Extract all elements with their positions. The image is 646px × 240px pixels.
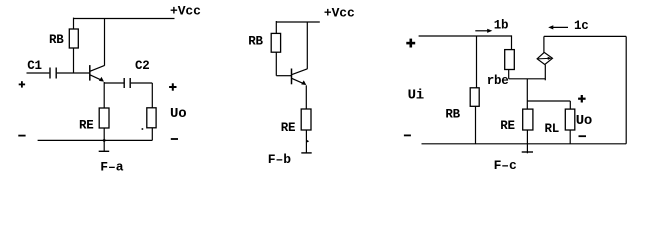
current arrow mark on emitter wire: [307, 140, 309, 143]
wire emitter node right to C2: [104, 82, 123, 84]
wire bottom rail F-c: [422, 143, 627, 145]
svg-text:RE: RE: [500, 119, 515, 133]
transistor Q2 base bar: [291, 69, 293, 85]
svg-text:Uo: Uo: [170, 106, 186, 122]
terminal tick F-c: [522, 151, 533, 153]
capacitor C1 plates: [49, 68, 51, 79]
current source top wire: [543, 36, 545, 52]
current source diamond: [537, 52, 552, 64]
wire RB top drop: [73, 18, 75, 29]
terminal tick F-b: [301, 152, 311, 154]
svg-text:1c: 1c: [574, 19, 589, 33]
wire RB bottom to base F-b: [275, 52, 277, 75]
resistor RB (F-b): [271, 33, 280, 52]
resistor RL (F-c): [565, 109, 575, 130]
svg-text:+Vcc: +Vcc: [324, 6, 355, 21]
wire base horizontal F-b: [276, 75, 291, 77]
wire C2 to output corner: [131, 82, 153, 84]
current source bottom wire: [544, 65, 546, 81]
resistor RB (F-c): [470, 88, 479, 107]
wire emitter node down: [526, 79, 528, 109]
wire C1 to base: [57, 72, 90, 74]
wire load bottom: [151, 128, 153, 141]
svg-text:F–a: F–a: [100, 160, 123, 175]
wire branch to RL: [527, 100, 570, 102]
svg-text:C2: C2: [135, 59, 150, 73]
resistor RB (F-a): [69, 29, 78, 48]
resistor RE (F-a): [99, 108, 109, 128]
current arrow ib: [475, 30, 489, 32]
minus output F-a: [171, 138, 178, 140]
wire RB3 top drop: [476, 36, 478, 88]
svg-text:rbe: rbe: [487, 74, 509, 88]
svg-text:RL: RL: [545, 122, 560, 136]
wire collector top rail F-c: [544, 35, 626, 37]
transistor Q2 emitter diagonal with arrow: [292, 78, 305, 84]
wire top rail (+Vcc) F-a: [74, 18, 175, 20]
current source inner arrow: [538, 57, 549, 60]
stray dot near load resistor: [142, 128, 144, 130]
terminal tick below rail F-a: [99, 150, 110, 152]
junction dot on bottom rail F-a: [103, 139, 106, 142]
wire right side drop: [625, 36, 627, 143]
wire input to C1: [27, 72, 50, 74]
wire rbe bottom to emitter node: [508, 70, 510, 79]
plus input F-c: [406, 39, 415, 48]
wire RB bottom to base node: [73, 48, 75, 73]
svg-text:C1: C1: [27, 59, 42, 73]
svg-text:1b: 1b: [494, 19, 509, 33]
wire emitter down to RE F-b: [305, 85, 307, 109]
wire corner to rbe: [511, 35, 513, 49]
wire input top rail F-c: [419, 35, 512, 37]
resistor RE (F-b): [301, 109, 311, 130]
plus input F-a: [19, 81, 25, 87]
wire bottom rail F-a: [38, 139, 153, 141]
resistor rbe: [505, 50, 515, 70]
wire emitter node down to RE: [103, 82, 105, 108]
current arrow ic: [551, 26, 568, 28]
plus output F-c: [578, 95, 586, 103]
wire top rail (+Vcc) F-b: [276, 21, 320, 23]
svg-text:RE: RE: [79, 119, 94, 133]
svg-text:Uo: Uo: [576, 113, 592, 129]
svg-text:RE: RE: [281, 121, 296, 135]
transistor Q1 collector diagonal: [90, 65, 104, 71]
resistor load (output) F-a: [147, 108, 156, 128]
svg-text:F–c: F–c: [494, 158, 517, 173]
svg-text:RB: RB: [248, 35, 263, 49]
svg-text:F–b: F–b: [268, 152, 291, 167]
plus output F-a: [169, 83, 176, 90]
wire Q2 collector to rail: [306, 22, 308, 69]
transistor Q1 base bar: [89, 65, 91, 81]
svg-text:Ui: Ui: [408, 88, 424, 104]
minus input F-c: [404, 135, 411, 137]
wire emitter node line: [509, 78, 546, 80]
transistor Q1 emitter diagonal with arrow: [90, 75, 102, 81]
svg-text:+Vcc: +Vcc: [170, 4, 201, 19]
wire Q1 collector to rail: [104, 19, 106, 66]
wire RE bottom to terminal F-b: [305, 130, 307, 153]
wire output drop: [151, 83, 153, 108]
minus output F-c: [579, 135, 587, 137]
capacitor C2 plates: [123, 78, 125, 88]
svg-text:RB: RB: [49, 33, 64, 47]
wire RE3 bottom through rail to terminal: [526, 130, 528, 153]
wire RL3 bottom: [569, 130, 571, 144]
minus input F-a: [18, 135, 25, 137]
resistor RE (F-c): [523, 109, 533, 130]
transistor Q2 collector diagonal: [292, 69, 308, 75]
svg-text:RB: RB: [445, 108, 460, 122]
wire RB3 bottom to rail: [475, 106, 477, 144]
wire RB top drop F-b: [275, 21, 277, 33]
wire RL drop: [569, 101, 571, 109]
wire RE bottom through rail to terminal: [103, 128, 105, 151]
